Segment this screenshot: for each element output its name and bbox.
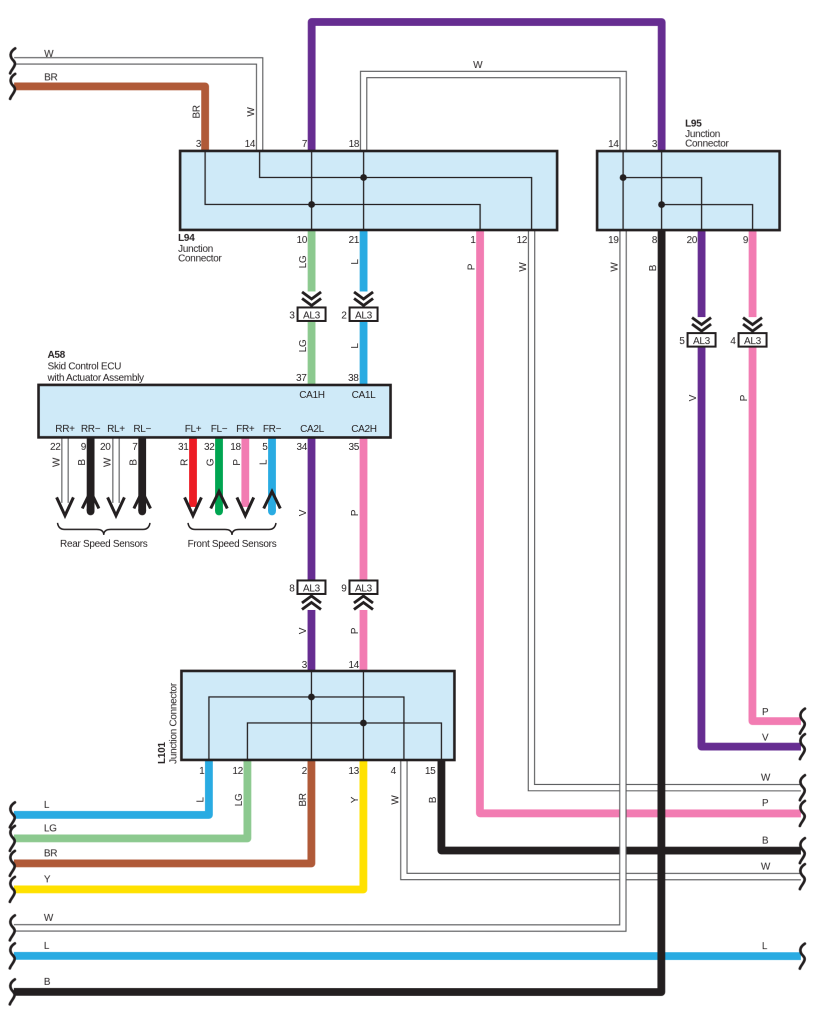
arrow up FR- [264, 491, 281, 508]
break squiggle left 7 [10, 915, 15, 940]
L101 junction dot B [360, 720, 367, 727]
L94 internal line pin18-21 [363, 151, 365, 230]
wire W sensor RR+ [61, 436, 68, 503]
svg-text:V: V [688, 394, 699, 401]
svg-text:W: W [761, 862, 771, 873]
svg-text:Y: Y [44, 874, 51, 885]
svg-text:22: 22 [50, 442, 61, 453]
break squiggle right 3 [800, 775, 805, 800]
wire B RR- tip [87, 510, 95, 512]
svg-text:W: W [518, 262, 529, 272]
svg-text:CA1L: CA1L [352, 390, 377, 401]
svg-text:3: 3 [302, 660, 308, 671]
wire P A58-35 to AL3 [360, 436, 368, 581]
connector AL3 pin2 [341, 292, 377, 321]
svg-text:19: 19 [608, 235, 619, 246]
label L101 [157, 682, 180, 764]
svg-text:14: 14 [608, 139, 619, 150]
svg-text:2: 2 [302, 766, 308, 777]
wire L sensor FR- [268, 436, 276, 511]
svg-text:L: L [762, 941, 768, 952]
svg-text:Front Speed Sensors: Front Speed Sensors [188, 539, 277, 550]
wire L FR- tip [268, 510, 276, 512]
wire P AL3 to right edge [752, 347, 801, 722]
wire B L95-8 to left edge [14, 229, 662, 992]
wire W L101-4 to right edge [404, 759, 801, 877]
svg-text:35: 35 [348, 442, 359, 453]
wire L long bottom [14, 952, 801, 960]
svg-text:W: W [761, 773, 771, 784]
label L94 [178, 233, 222, 264]
svg-text:P: P [762, 798, 769, 809]
connector AL3 pin3 [289, 292, 325, 321]
svg-text:CA1H: CA1H [299, 390, 325, 401]
svg-text:7: 7 [302, 139, 308, 150]
svg-text:3: 3 [652, 139, 658, 150]
break squiggle left 6 [10, 877, 15, 902]
L95 internal line pin14-19 [622, 151, 624, 230]
wire L AL3 to A58-38 [360, 320, 368, 386]
svg-text:AL3: AL3 [303, 583, 321, 594]
break squiggle left 4 [10, 826, 15, 851]
svg-text:9: 9 [81, 442, 87, 453]
wire LG L101-12 to left edge [14, 759, 248, 839]
svg-text:B: B [762, 836, 769, 847]
wire L L94-21 to AL3 [360, 229, 368, 292]
svg-text:G: G [206, 458, 217, 466]
wire L L101-1 to left edge [14, 759, 209, 815]
A58 border [39, 385, 391, 438]
svg-text:B: B [129, 459, 140, 466]
L95 border [597, 151, 780, 230]
svg-text:W: W [610, 262, 621, 272]
svg-text:L101: L101 [157, 742, 168, 764]
svg-text:15: 15 [425, 766, 436, 777]
svg-text:BR: BR [298, 793, 309, 806]
L94 internal bus pin3 [205, 151, 480, 230]
svg-text:20: 20 [100, 442, 111, 453]
svg-text:18: 18 [349, 139, 360, 150]
svg-text:FL−: FL− [211, 424, 228, 435]
brace rear speed sensors [57, 523, 150, 550]
connector AL3 pin4 [730, 318, 766, 347]
break squiggle right 5 [800, 838, 805, 863]
junction connector L95 box [597, 151, 780, 230]
svg-text:B: B [44, 977, 51, 988]
svg-text:P: P [350, 627, 361, 634]
svg-text:W: W [52, 457, 63, 467]
wire V AL3 to right edge [701, 347, 801, 747]
svg-text:32: 32 [204, 442, 215, 453]
svg-text:8: 8 [289, 583, 295, 594]
break squiggle right 4 [800, 801, 805, 826]
svg-text:14: 14 [245, 139, 256, 150]
L101 internal bus pin1-4 [209, 697, 404, 760]
svg-text:AL3: AL3 [303, 310, 321, 321]
svg-text:Y: Y [350, 796, 361, 803]
svg-text:W: W [44, 49, 54, 60]
wire LG AL3 to A58-37 [308, 320, 316, 386]
svg-text:L: L [44, 800, 50, 811]
svg-text:18: 18 [230, 442, 241, 453]
svg-text:9: 9 [341, 583, 347, 594]
svg-text:AL3: AL3 [744, 336, 762, 347]
svg-text:L: L [350, 343, 361, 349]
arrow up FL- [211, 491, 228, 508]
svg-text:RL−: RL− [133, 424, 151, 435]
svg-text:B: B [648, 264, 659, 271]
svg-text:V: V [762, 733, 769, 744]
svg-text:Skid Control ECU: Skid Control ECU [48, 361, 122, 372]
arrow up RR- [82, 491, 99, 508]
svg-text:V: V [298, 627, 309, 634]
svg-text:CA2H: CA2H [351, 424, 377, 435]
svg-text:AL3: AL3 [693, 336, 711, 347]
svg-text:W: W [246, 107, 257, 117]
svg-text:20: 20 [687, 235, 698, 246]
svg-text:BR: BR [192, 105, 203, 118]
svg-text:10: 10 [297, 235, 308, 246]
svg-text:BR: BR [44, 848, 57, 859]
svg-text:AL3: AL3 [355, 310, 373, 321]
svg-text:LG: LG [44, 823, 57, 834]
svg-text:Connector: Connector [178, 253, 222, 264]
L94 junction dot B [360, 174, 367, 181]
L95 internal bus to pin20 [623, 178, 702, 231]
svg-text:14: 14 [348, 660, 359, 671]
svg-text:L: L [350, 259, 361, 265]
svg-text:B: B [77, 459, 88, 466]
svg-text:B: B [428, 796, 439, 803]
wire W top-left into L94-14 [14, 61, 260, 152]
svg-text:L94: L94 [178, 233, 195, 244]
arrow down RR+ [57, 497, 74, 515]
wire B sensor RR- [87, 436, 95, 511]
svg-text:12: 12 [517, 235, 528, 246]
svg-text:13: 13 [348, 766, 359, 777]
svg-text:L95: L95 [685, 119, 702, 130]
svg-text:9: 9 [743, 235, 749, 246]
wire P L95-9 to AL3 [749, 229, 757, 317]
svg-text:BR: BR [44, 72, 57, 83]
svg-text:P: P [467, 263, 478, 270]
svg-text:4: 4 [730, 336, 736, 347]
svg-text:W: W [473, 60, 483, 71]
L101 internal line pin14-13 [362, 671, 364, 760]
svg-text:L: L [44, 941, 50, 952]
svg-text:Connector: Connector [685, 139, 729, 150]
svg-text:31: 31 [178, 442, 189, 453]
connector AL3 pin5 [679, 318, 715, 347]
svg-text:34: 34 [296, 442, 307, 453]
break squiggle right 6 [800, 864, 805, 889]
skid control ECU A58 box [39, 385, 391, 438]
L101 internal bus pin12-15 [247, 723, 441, 760]
svg-text:3: 3 [289, 310, 295, 321]
wire R sensor FL+ [189, 436, 197, 507]
wire W L95-19 to left edge [14, 229, 623, 928]
wire W L94-12 to right edge [531, 229, 801, 788]
svg-text:1: 1 [470, 235, 476, 246]
L101 internal line pin3-2 [310, 671, 312, 760]
wire W top L94-18 to L95-14 [364, 74, 624, 152]
svg-text:L: L [259, 459, 270, 465]
svg-text:LG: LG [234, 793, 245, 806]
svg-text:V: V [298, 509, 309, 516]
L94 internal line pin7-10 [311, 151, 313, 230]
wire P sensor FR+ [241, 436, 249, 507]
label L95 [685, 119, 729, 150]
L101 border [181, 671, 454, 760]
svg-text:FL+: FL+ [185, 424, 202, 435]
svg-text:W: W [103, 457, 114, 467]
wire LG L94-10 to AL3 [308, 229, 316, 292]
svg-text:FR+: FR+ [236, 424, 255, 435]
break squiggle right 1 [800, 709, 805, 734]
wire Y L101-13 to left edge [14, 759, 364, 890]
break squiggle left 2 [10, 74, 15, 99]
break squiggle left 9 [10, 979, 15, 1004]
svg-text:38: 38 [348, 373, 359, 384]
svg-text:P: P [739, 394, 750, 401]
svg-text:LG: LG [298, 339, 309, 352]
wire P L94-1 to right edge [480, 229, 801, 813]
wire G FL- tip [215, 510, 223, 512]
svg-text:Rear Speed Sensors: Rear Speed Sensors [60, 539, 148, 550]
wire V L95-20 to AL3 [698, 229, 706, 317]
wire G sensor FL- [215, 436, 223, 510]
wire BR top-left into L94-3 [14, 86, 205, 152]
junction connector L94 box [180, 151, 557, 230]
L95 junction dot A [620, 174, 627, 181]
svg-text:Junction Connector: Junction Connector [168, 682, 179, 764]
svg-text:RR+: RR+ [55, 424, 75, 435]
svg-text:P: P [232, 459, 243, 466]
svg-text:4: 4 [391, 766, 397, 777]
svg-text:7: 7 [132, 442, 138, 453]
svg-text:12: 12 [232, 766, 243, 777]
break squiggle right 2 [800, 734, 805, 759]
wire V top L94-7 to L95-3 [312, 22, 662, 152]
arrow down RL+ [108, 497, 125, 515]
svg-text:A58: A58 [48, 350, 66, 361]
arrow down FL+ [185, 497, 202, 515]
svg-text:21: 21 [349, 235, 360, 246]
wire W sensor RL+ [112, 436, 119, 503]
svg-text:W: W [44, 913, 54, 924]
arrow down FR+ [237, 497, 254, 515]
svg-text:37: 37 [296, 373, 307, 384]
svg-text:3: 3 [196, 139, 202, 150]
wire B RL- tip [138, 510, 146, 512]
break squiggle left 3 [10, 802, 15, 827]
break squiggle right 7 [800, 944, 805, 969]
L94 border [180, 151, 557, 230]
junction connector L101 box [181, 671, 454, 760]
break squiggle left 8 [10, 943, 15, 968]
L95 internal bus to pin9 [662, 205, 753, 231]
brace front speed sensors [188, 523, 277, 550]
break squiggle left 5 [10, 851, 15, 876]
label A58 [47, 350, 145, 384]
svg-text:5: 5 [679, 336, 685, 347]
svg-text:8: 8 [652, 235, 658, 246]
svg-text:with Actuator Assembly: with Actuator Assembly [47, 373, 145, 384]
svg-text:CA2L: CA2L [300, 424, 325, 435]
wire V AL3 to L101-3 [308, 610, 316, 672]
svg-text:P: P [762, 707, 769, 718]
svg-text:2: 2 [341, 310, 347, 321]
svg-text:AL3: AL3 [355, 583, 373, 594]
L94 internal bus pin14 [260, 151, 532, 230]
L95 junction dot B [658, 201, 665, 208]
L101 junction dot A [308, 694, 315, 701]
svg-text:R: R [180, 459, 191, 466]
svg-text:FR−: FR− [263, 424, 282, 435]
wire B L101-15 to right edge [441, 759, 801, 851]
svg-text:LG: LG [298, 255, 309, 268]
wire V A58-34 to AL3 [308, 436, 316, 580]
connector AL3 pin8 [289, 580, 325, 609]
connector AL3 pin9 [341, 580, 377, 609]
svg-text:RL+: RL+ [107, 424, 125, 435]
L95 internal line pin3-8 [661, 151, 663, 230]
svg-text:1: 1 [199, 766, 205, 777]
break squiggle left 1 [10, 48, 15, 73]
svg-text:W: W [390, 795, 401, 805]
wire BR L101-2 to left edge [14, 759, 312, 864]
wire B sensor RL- [138, 436, 146, 511]
L94 junction dot A [308, 201, 315, 208]
arrow up RL- [134, 491, 151, 508]
wire P AL3 to L101-14 [360, 610, 368, 672]
svg-text:L: L [195, 797, 206, 803]
svg-text:RR−: RR− [81, 424, 101, 435]
svg-text:P: P [350, 509, 361, 516]
svg-text:5: 5 [262, 442, 268, 453]
